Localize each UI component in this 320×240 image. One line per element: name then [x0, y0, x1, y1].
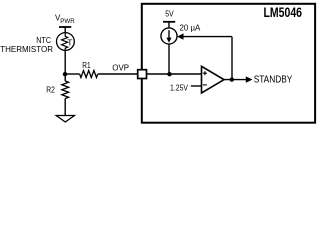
svg-text:R1: R1	[82, 60, 91, 70]
svg-text:20 µA: 20 µA	[180, 23, 201, 33]
svg-text:5V: 5V	[165, 9, 174, 19]
svg-text:OVP: OVP	[112, 63, 129, 73]
svg-text:1.25V: 1.25V	[170, 82, 188, 92]
svg-text:PWR: PWR	[60, 18, 75, 25]
svg-text:LM5046: LM5046	[264, 5, 303, 20]
svg-text:T: T	[67, 38, 72, 48]
svg-text:STANDBY: STANDBY	[254, 75, 293, 86]
svg-text:R2: R2	[46, 85, 55, 95]
svg-text:THERMISTOR: THERMISTOR	[0, 44, 53, 54]
